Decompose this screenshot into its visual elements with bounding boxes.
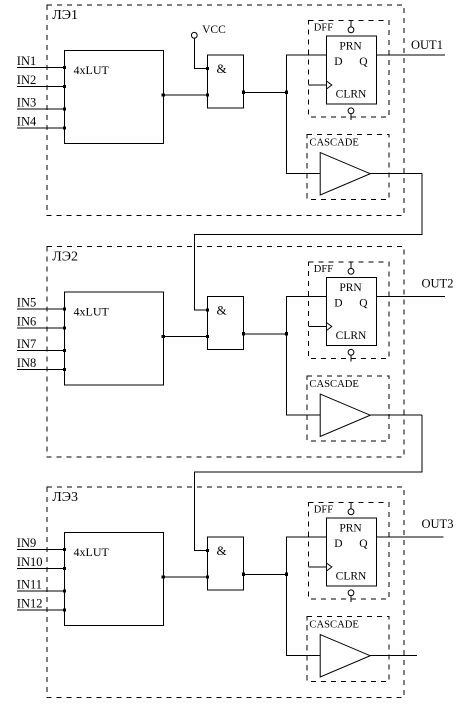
D flip-flop DFF1 [327,36,377,104]
node AND2 cascade input junction [206,308,209,311]
wire CASCADE3 output [370,655,417,657]
svg-text:PRN: PRN [339,282,362,294]
logic element box ЛЭ1 [47,5,404,216]
svg-text:DFF: DFF [314,22,333,33]
label IN5 [17,295,36,309]
svg-text:IN9: IN9 [17,536,36,550]
svg-text:IN1: IN1 [17,54,36,68]
wire AND1 output [242,91,287,94]
wire LUT2 output to AND gate [162,335,210,338]
buffer CASCADE2 [320,394,370,436]
label OUT1 [411,38,443,52]
svg-text:ЛЭ1: ЛЭ1 [52,8,78,23]
label IN9 [17,536,36,550]
pin CLRN terminal (DFF1) [348,108,354,120]
wire LUT3 output to AND gate [162,575,210,578]
input wire IN11 [17,589,66,592]
label OUT2 [422,276,454,290]
label IN4 [17,114,37,128]
pin PRN terminal (DFF3) [348,503,354,515]
svg-text:&: & [217,61,227,76]
input wire IN1 [17,66,66,69]
pin clock input (DFF3) [309,563,332,571]
DFF block box (ЛЭ2) [309,262,390,359]
svg-text:IN5: IN5 [17,295,36,309]
label IN12 [17,596,43,610]
D flip-flop DFF2 [327,278,377,346]
label IN11 [17,577,42,591]
svg-text:CASCADE: CASCADE [309,379,358,390]
svg-text:DFF: DFF [314,504,333,515]
svg-text:CASCADE: CASCADE [309,138,358,149]
label IN3 [17,95,36,109]
node junction J3 [285,573,288,576]
pin clock input (DFF2) [309,323,332,331]
label VCC [202,24,226,36]
svg-text:IN11: IN11 [17,577,42,591]
svg-text:IN6: IN6 [17,314,36,328]
node junction J1 [285,91,288,94]
wire cascade chain ЛЭ2 to ЛЭ3 [195,415,423,551]
svg-text:OUT2: OUT2 [422,276,454,290]
svg-text:CLRN: CLRN [336,330,367,342]
svg-text:VCC: VCC [202,24,226,36]
svg-text:IN7: IN7 [17,337,36,351]
pin clock input (DFF1) [309,81,332,89]
pin CLRN terminal (DFF3) [348,590,354,602]
LUT block 4xLUT (ЛЭ1) [65,50,164,143]
svg-text:D: D [334,538,342,550]
wire VCC to AND1 input [194,38,207,68]
wire Q output OUT3 [377,536,444,538]
svg-text:OUT1: OUT1 [411,38,443,52]
wire AND2 output [242,332,287,335]
input wire IN7 [17,349,66,352]
label IN7 [17,337,36,351]
label ЛЭ2 [52,249,78,264]
svg-text:D: D [334,298,342,310]
pin CLRN terminal (DFF2) [348,349,354,361]
svg-text:&: & [217,543,227,558]
svg-text:4xLUT: 4xLUT [74,63,110,77]
logic element box ЛЭ2 [47,247,404,458]
CASCADE block box (ЛЭ3) [307,616,389,681]
D flip-flop DFF3 [327,518,377,586]
wire CASCADE2 output [370,414,422,416]
wire Q output OUT1 [377,54,446,56]
label IN6 [17,314,36,328]
AND gate & (ЛЭ3) [206,537,244,590]
label IN8 [17,356,36,370]
label OUT3 [422,517,454,531]
wire Q output OUT2 [377,296,446,298]
svg-text:CLRN: CLRN [336,571,367,583]
svg-text:D: D [334,56,342,68]
svg-text:IN2: IN2 [17,73,36,87]
CASCADE block box (ЛЭ1) [307,134,389,199]
wire AND3 output [242,573,287,576]
label IN1 [17,54,36,68]
wire to CASCADE3 input [287,574,321,655]
svg-text:4xLUT: 4xLUT [74,545,110,559]
CASCADE block box (ЛЭ2) [307,376,389,441]
svg-text:PRN: PRN [339,40,362,52]
pin PRN terminal (DFF1) [348,21,354,33]
input wire IN12 [17,608,66,611]
input wire IN6 [17,326,66,329]
LUT block 4xLUT (ЛЭ2) [65,292,164,385]
input wire IN5 [17,307,66,310]
input wire IN3 [17,107,66,110]
AND gate & (ЛЭ2) [206,297,244,350]
svg-text:IN8: IN8 [17,356,36,370]
wire to DFF1 D input [287,55,327,92]
LUT block 4xLUT (ЛЭ3) [65,532,164,625]
node AND3 cascade input junction [206,549,209,552]
label ЛЭ1 [52,8,78,23]
input wire IN10 [17,567,66,570]
input wire IN2 [17,85,66,88]
svg-text:PRN: PRN [339,522,362,534]
AND gate & (ЛЭ1) [206,55,244,108]
wire to CASCADE1 input [287,92,321,173]
svg-text:Q: Q [359,56,368,68]
buffer CASCADE3 [320,635,370,677]
logic element box ЛЭ3 [47,487,404,698]
buffer CASCADE1 [320,153,370,195]
svg-text:&: & [217,303,227,318]
label ЛЭ3 [52,490,78,505]
svg-text:Q: Q [359,538,368,550]
wire cascade chain ЛЭ1 to ЛЭ2 [195,174,423,311]
svg-text:Q: Q [359,298,368,310]
svg-text:ЛЭ3: ЛЭ3 [52,490,78,505]
input wire IN9 [17,548,66,551]
svg-text:DFF: DFF [314,264,333,275]
wire LUT1 output to AND gate [162,93,210,96]
pin PRN terminal (DFF2) [348,262,354,274]
svg-text:OUT3: OUT3 [422,517,454,531]
svg-text:CASCADE: CASCADE [309,620,358,631]
DFF block box (ЛЭ1) [309,21,390,118]
input wire IN4 [17,126,66,129]
input wire IN8 [17,368,66,371]
wire to DFF3 D input [287,537,327,574]
wire to CASCADE2 input [287,334,321,415]
svg-text:CLRN: CLRN [336,89,367,101]
label IN2 [17,73,36,87]
wire CASCADE1 output [370,173,422,175]
wire to DFF2 D input [287,297,327,334]
svg-text:IN4: IN4 [17,114,37,128]
svg-text:IN12: IN12 [17,596,43,610]
svg-text:ЛЭ2: ЛЭ2 [52,249,78,264]
DFF block box (ЛЭ3) [309,503,390,600]
label IN10 [17,555,43,569]
power VCC terminal [191,32,197,38]
svg-text:IN3: IN3 [17,95,36,109]
svg-text:4xLUT: 4xLUT [74,305,110,319]
svg-text:IN10: IN10 [17,555,43,569]
node junction J2 [285,332,288,335]
